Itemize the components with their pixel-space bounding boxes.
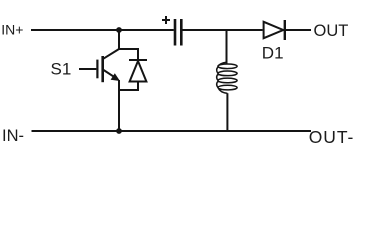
svg-text:S1: S1 <box>51 59 72 78</box>
svg-text:IN+: IN+ <box>1 22 23 38</box>
svg-text:IN-: IN- <box>2 127 24 145</box>
svg-text:OUT-: OUT- <box>309 127 354 147</box>
svg-text:D1: D1 <box>262 44 284 63</box>
svg-text:OUT: OUT <box>314 22 349 40</box>
